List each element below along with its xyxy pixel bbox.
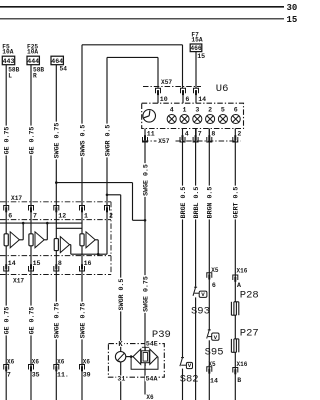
svg-text:X16: X16 [237, 268, 248, 275]
svg-text:7: 7 [7, 372, 11, 379]
svg-text:SWGE 0.75: SWGE 0.75 [54, 303, 61, 339]
svg-text:7: 7 [33, 212, 37, 219]
svg-text:X17: X17 [13, 278, 24, 285]
svg-text:1: 1 [183, 106, 187, 113]
svg-text:GE 0.75: GE 0.75 [28, 307, 35, 335]
svg-text:54: 54 [60, 66, 68, 73]
svg-text:1: 1 [84, 212, 88, 219]
svg-text:10A: 10A [27, 48, 38, 55]
svg-text:16: 16 [84, 260, 92, 267]
svg-text:12: 12 [58, 212, 66, 219]
svg-text:P27: P27 [240, 327, 259, 339]
svg-text:7: 7 [198, 130, 202, 137]
svg-text:443: 443 [3, 58, 15, 65]
svg-text:15: 15 [197, 53, 205, 60]
svg-text:A: A [237, 282, 241, 289]
svg-text:SWGE 0.75: SWGE 0.75 [79, 303, 86, 339]
svg-text:X5: X5 [211, 267, 219, 274]
svg-text:10A: 10A [2, 48, 13, 55]
svg-text:SWWS 0.5: SWWS 0.5 [79, 125, 86, 157]
svg-text:V: V [188, 362, 192, 369]
svg-text:S93: S93 [191, 306, 210, 318]
svg-text:SWGE 0.75: SWGE 0.75 [54, 123, 61, 159]
svg-text:54E: 54E [146, 340, 158, 347]
svg-text:6: 6 [8, 212, 12, 219]
svg-text:6: 6 [185, 96, 189, 103]
svg-text:BRBL 0.5: BRBL 0.5 [193, 187, 200, 219]
svg-text:V: V [214, 334, 218, 341]
svg-text:10: 10 [160, 96, 168, 103]
svg-text:SWGE 0.5: SWGE 0.5 [142, 164, 149, 196]
svg-text:30: 30 [287, 3, 298, 13]
svg-text:2: 2 [237, 130, 241, 137]
svg-text:P39: P39 [152, 329, 171, 341]
svg-text:39: 39 [83, 372, 91, 379]
svg-text:V: V [201, 291, 205, 298]
svg-text:8: 8 [211, 130, 215, 137]
svg-text:15: 15 [33, 260, 41, 267]
svg-text:S82: S82 [180, 374, 199, 386]
svg-text:466: 466 [190, 45, 202, 52]
svg-text:444: 444 [27, 58, 39, 65]
svg-text:L: L [8, 73, 12, 80]
svg-text:2: 2 [208, 106, 212, 113]
svg-text:54A: 54A [146, 376, 158, 383]
svg-text:GE 0.75: GE 0.75 [28, 127, 35, 155]
svg-text:11: 11 [147, 130, 155, 137]
svg-text:15A: 15A [191, 36, 202, 43]
svg-text:2: 2 [109, 212, 113, 219]
svg-text:GERT 0.5: GERT 0.5 [233, 187, 240, 219]
svg-text:11.: 11. [57, 372, 69, 379]
svg-text:3: 3 [195, 106, 199, 113]
svg-text:SWGR 0.5: SWGR 0.5 [104, 125, 111, 157]
svg-text:4: 4 [170, 106, 174, 113]
svg-text:15: 15 [287, 15, 298, 25]
svg-text:U6: U6 [216, 83, 229, 95]
svg-text:X6: X6 [146, 394, 154, 400]
svg-text:4: 4 [185, 130, 189, 137]
svg-text:6: 6 [234, 106, 238, 113]
svg-text:B: B [237, 377, 241, 384]
svg-text:X17: X17 [11, 195, 22, 202]
svg-text:X57: X57 [158, 138, 169, 145]
svg-text:BRGN 0.5: BRGN 0.5 [207, 187, 214, 219]
svg-text:SWGE 0.75: SWGE 0.75 [142, 276, 149, 312]
svg-text:14: 14 [210, 378, 218, 385]
svg-text:P28: P28 [240, 290, 259, 302]
svg-text:14: 14 [198, 96, 206, 103]
svg-text:X57: X57 [161, 79, 172, 86]
svg-text:5: 5 [221, 106, 225, 113]
svg-text:8: 8 [58, 260, 62, 267]
svg-text:BRGE 0.5: BRGE 0.5 [180, 187, 187, 219]
svg-text:SWGR 0.5: SWGR 0.5 [118, 279, 125, 311]
svg-text:35: 35 [32, 372, 40, 379]
svg-text:14: 14 [8, 260, 16, 267]
svg-text:S95: S95 [205, 347, 224, 359]
svg-text:31: 31 [117, 376, 125, 383]
svg-text:R: R [33, 73, 37, 80]
svg-text:6: 6 [212, 282, 216, 289]
svg-text:464: 464 [51, 58, 63, 65]
svg-text:GE 0.75: GE 0.75 [4, 307, 11, 335]
svg-text:GE 0.75: GE 0.75 [4, 127, 11, 155]
